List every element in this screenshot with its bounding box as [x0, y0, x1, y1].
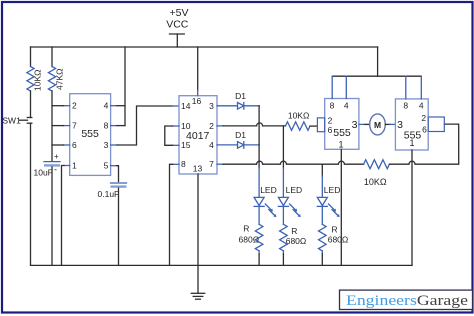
LED D3	[278, 185, 302, 217]
svg-text:555: 555	[81, 128, 99, 140]
wire: motor to U4 pin3	[385, 123, 395, 125]
svg-text:1: 1	[338, 139, 343, 149]
svg-text:10KΩ: 10KΩ	[288, 111, 309, 121]
wire: U4 pin1 to ground rail	[411, 150, 413, 265]
svg-text:R: R	[291, 226, 297, 236]
svg-text:3: 3	[352, 119, 358, 131]
svg-text:6: 6	[422, 125, 427, 135]
capacitor C2 0.1uF on U1 pin5	[98, 166, 127, 266]
svg-text:8: 8	[330, 101, 335, 111]
op timer U1 555 box	[70, 94, 111, 176]
svg-text:LED: LED	[260, 185, 277, 195]
wire: U2 pin16 to rail	[197, 47, 199, 96]
wire: control row right of 10K with hop, up to U4 trigger	[389, 124, 458, 164]
svg-text:3: 3	[209, 101, 214, 111]
timer U3 555 (left motor driver)	[325, 99, 359, 150]
resistor R 10KOhm to U3 trigger	[285, 111, 317, 131]
svg-text:R: R	[243, 224, 249, 234]
wire: U2 pin2 row with hop, to 10K	[217, 123, 285, 126]
wire: U1 pin4 pin8 to rail	[111, 47, 125, 126]
svg-text:3: 3	[104, 140, 109, 150]
svg-text:3: 3	[397, 119, 403, 131]
diode D1 (upper) on U2 pin3	[217, 91, 259, 109]
resistor R 680 Ohm (2)	[280, 206, 307, 265]
wire: U2 pin7 control row with hops	[217, 161, 364, 164]
svg-text:555: 555	[333, 127, 351, 139]
svg-text:680Ω: 680Ω	[286, 236, 307, 246]
svg-text:+5V: +5V	[170, 7, 189, 19]
svg-text:10KΩ: 10KΩ	[33, 70, 43, 91]
resistor R 47KOhm	[48, 47, 64, 91]
svg-text:680Ω: 680Ω	[239, 235, 260, 245]
U4 trigger bracket pins 2/6	[428, 117, 444, 132]
svg-text:15: 15	[181, 140, 191, 150]
svg-text:4: 4	[419, 101, 424, 111]
svg-text:0.1uF: 0.1uF	[98, 189, 120, 199]
wire: U1 pin1 to ground rail	[62, 166, 70, 266]
svg-text:13: 13	[193, 164, 203, 174]
wire: U2 pin13 to ground	[197, 174, 199, 293]
svg-text:EngineersGarage: EngineersGarage	[346, 293, 468, 309]
wire: U2 pin8 to ground rail	[170, 164, 180, 265]
wire: U2 pin10-pin15 loop	[165, 126, 179, 145]
diode D1 (lower) on U2 pin4	[217, 130, 259, 148]
resistor R 10KOhm (lower)	[364, 160, 390, 187]
EngineersGarage logo	[340, 290, 473, 309]
counter U2 4017 box	[179, 96, 217, 174]
svg-text:M: M	[374, 120, 381, 130]
svg-text:8: 8	[104, 120, 109, 130]
svg-text:R: R	[332, 225, 338, 235]
svg-text:7: 7	[209, 159, 214, 169]
wire: diode output node down to LED1	[258, 106, 260, 197]
svg-text:6: 6	[72, 140, 77, 150]
svg-text:10: 10	[181, 121, 191, 131]
power +5V VCC terminal	[166, 7, 189, 47]
wire: bar over motor-driver 555s	[332, 75, 421, 77]
wire: 47K to pins 2/7/6 and cap column	[51, 91, 53, 161]
svg-text:2: 2	[72, 101, 77, 111]
resistor R 10KOhm left	[27, 47, 43, 91]
svg-text:1: 1	[409, 138, 414, 148]
svg-text:16: 16	[192, 96, 202, 106]
wire: U4 pin8 pin4 risers	[406, 76, 422, 99]
svg-text:LED: LED	[324, 185, 341, 195]
svg-text:10uF: 10uF	[34, 168, 53, 178]
wire: bottom ground rail	[31, 264, 413, 266]
wire: node B down to LED2	[282, 126, 284, 197]
svg-text:7: 7	[72, 120, 77, 130]
wire: supply riser to motor-driver bar	[377, 47, 379, 76]
svg-text:2: 2	[328, 115, 333, 125]
svg-text:+: +	[54, 152, 59, 161]
svg-text:VCC: VCC	[166, 19, 189, 31]
svg-text:D1: D1	[235, 130, 246, 140]
wire: U1 pin6 stub	[52, 144, 70, 146]
wire: U1 pin2 stub	[52, 105, 70, 107]
LED D2	[254, 185, 277, 217]
wire: U3 pin8 pin4 risers	[332, 76, 346, 98]
svg-text:SW1: SW1	[2, 116, 21, 126]
LED D4	[317, 185, 340, 217]
svg-text:2: 2	[209, 121, 214, 131]
resistor R 680 Ohm (1)	[239, 206, 263, 265]
svg-text:8: 8	[181, 159, 186, 169]
ground	[191, 293, 204, 299]
wire: U1 pin7 stub	[52, 125, 70, 127]
wire: U3 pin1 to ground rail	[340, 149, 342, 265]
svg-text:1: 1	[72, 160, 77, 170]
svg-text:5: 5	[104, 160, 109, 170]
svg-text:14: 14	[181, 101, 191, 111]
svg-text:-: -	[54, 165, 57, 175]
svg-text:LED: LED	[286, 185, 303, 195]
capacitor C1 10uF	[34, 152, 61, 266]
svg-text:6: 6	[328, 125, 333, 135]
svg-text:47KΩ: 47KΩ	[55, 69, 65, 90]
svg-text:10KΩ: 10KΩ	[364, 177, 387, 187]
resistor R 680 Ohm (3)	[318, 206, 348, 265]
svg-text:680Ω: 680Ω	[328, 235, 349, 245]
svg-text:4: 4	[104, 101, 109, 111]
motor M	[370, 114, 386, 135]
U3 trigger bracket pins 2/6	[317, 118, 324, 132]
svg-text:8: 8	[403, 101, 408, 111]
svg-text:4: 4	[344, 101, 349, 111]
wire: U3 pin3 to motor	[359, 123, 370, 125]
svg-text:2: 2	[421, 113, 426, 123]
svg-text:D1: D1	[235, 91, 246, 101]
wire: top supply rail	[31, 46, 378, 48]
wire: LED3 drop from control row	[321, 164, 323, 197]
switch SW1	[2, 91, 31, 265]
svg-text:4: 4	[209, 140, 214, 150]
wire: U1 pin3 to U2 pin14	[111, 106, 179, 145]
timer U4 555 (right motor driver)	[395, 99, 428, 150]
